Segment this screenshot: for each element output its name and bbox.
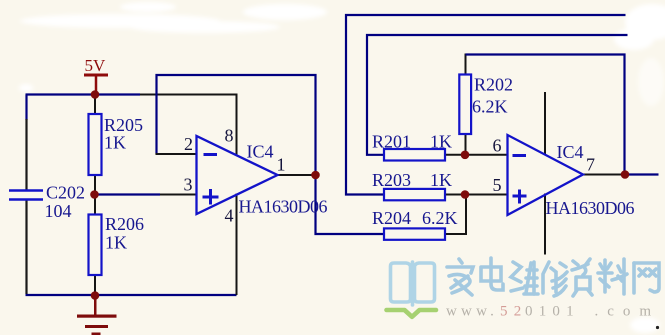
svg-text:0101: 0101 [525,304,580,320]
node: 5V junction [91,90,100,99]
svg-text:6.2K: 6.2K [422,208,458,228]
svg-text:6.2K: 6.2K [472,97,508,117]
op-amp2 minus input symbol [513,154,527,157]
watermark character wei [511,262,538,294]
wire: left rail upper segment [25,95,27,121]
svg-text:1: 1 [277,155,286,175]
svg-text:HA1630D06: HA1630D06 [546,198,635,218]
artifact dot bottom right [656,326,659,329]
watermark character xiu [543,262,567,296]
wire: pin 3 input navy part [95,193,160,195]
op-amp U1 IC4 triangle [197,136,278,214]
svg-text:R203: R203 [372,170,411,190]
watermark url www.520101.com [446,304,660,320]
resistor R203 [384,189,445,200]
svg-text:52: 52 [500,304,527,320]
op-amp1 minus input symbol [204,153,218,156]
node: op-amp1 output junction [311,171,320,180]
op-amp1 plus input symbol [203,189,219,205]
wire: top supply rail to pin 8 [140,94,237,96]
svg-text:R202: R202 [474,75,513,95]
wire: left rail lower segment [25,200,27,295]
svg-text:8: 8 [225,125,234,145]
svg-text:1K: 1K [104,133,126,153]
value label R203 1K [372,170,452,190]
watermark logo book icon [391,262,435,305]
svg-text:1K: 1K [105,233,127,253]
watermark green swoosh [387,310,437,317]
node: op-amp2 output junction [621,170,630,179]
wire: outer feedback loop to R203 [346,15,626,195]
svg-text:4: 4 [225,206,234,226]
watermark character liao [598,259,627,294]
svg-text:104: 104 [45,201,72,221]
node: pin 5 junction [461,190,470,199]
wire: R201 right lead to pin 6 [445,154,508,156]
wire: R205 top lead [94,94,96,115]
node: C202 R205 R206 pin3 junction [90,190,99,199]
resistor R205 [89,114,102,175]
value label R206 1K [105,214,144,253]
svg-text:R206: R206 [105,214,144,234]
wire: pin 2 input [156,153,198,155]
svg-text:C202: C202 [46,183,85,203]
svg-text:R201: R201 [372,132,411,152]
power 5V [84,56,108,91]
watermark character dian [481,258,503,290]
wire: R202 bottom lead [465,134,467,156]
ground [77,295,117,335]
value label C202 104 [45,183,86,222]
svg-text:5: 5 [493,175,502,195]
value label R202 6.2K [472,75,513,117]
svg-text:1K: 1K [430,170,452,190]
value label R204 6.2K [372,208,458,228]
svg-text:7: 7 [586,155,595,175]
wire: top supply rail [26,93,141,95]
wire: op-amp1 output to R204 [316,175,385,234]
svg-text:.com: .com [595,304,661,320]
wire: R205 bottom lead [94,175,96,195]
svg-text:HA1630D06: HA1630D06 [239,197,328,217]
svg-text:6: 6 [493,136,502,156]
op-amp U2 IC4 triangle [508,135,584,215]
wire: inner feedback loop to R201 [367,35,628,155]
svg-text:5V: 5V [85,56,107,75]
svg-text:R204: R204 [372,208,411,228]
resistor R204 [384,228,445,239]
svg-text:3: 3 [184,175,193,195]
svg-text:IC4: IC4 [247,142,274,162]
wire: op-amp1 output [277,174,312,176]
wire: pin 8 drop [236,94,238,156]
wire: pin 3 input black part [160,194,197,196]
resistor R202 [459,75,471,135]
wire: op-amp2 output [583,174,623,176]
value label R201 1K [372,132,452,152]
wire: R202 top lead [465,54,467,76]
watermark character wang [634,263,659,293]
wire: R203 right lead to pin 5 [445,194,508,196]
wire: op-amp2 pin 8 stub [544,92,546,154]
wire: pin 4 drop [236,194,238,296]
watermark character jia [447,259,473,295]
wire: R202 feedback to output node [466,55,625,175]
resistor R201 [384,149,445,161]
wire: op-amp2 pin 4 stub [544,194,546,255]
svg-text:2: 2 [184,134,193,154]
capacitor C202 [9,191,43,200]
resistor R206 [89,215,102,276]
wire: R204 right lead to node [445,195,467,235]
wire: R206 top lead [94,195,96,216]
wire: output to right edge [625,173,659,175]
node: pin 6 junction [461,151,470,160]
watermark character zi [572,259,592,296]
wire: feedback loop op-amp1 [157,75,316,175]
node: ground junction [91,291,100,300]
op-amp2 plus input symbol [513,190,527,204]
wire: bottom ground rail [26,294,237,296]
svg-text:www.: www. [446,304,498,320]
svg-text:IC4: IC4 [557,142,584,162]
svg-text:1K: 1K [430,132,452,152]
value label R205 1K [104,115,143,153]
wire: R206 bottom lead [94,275,96,296]
